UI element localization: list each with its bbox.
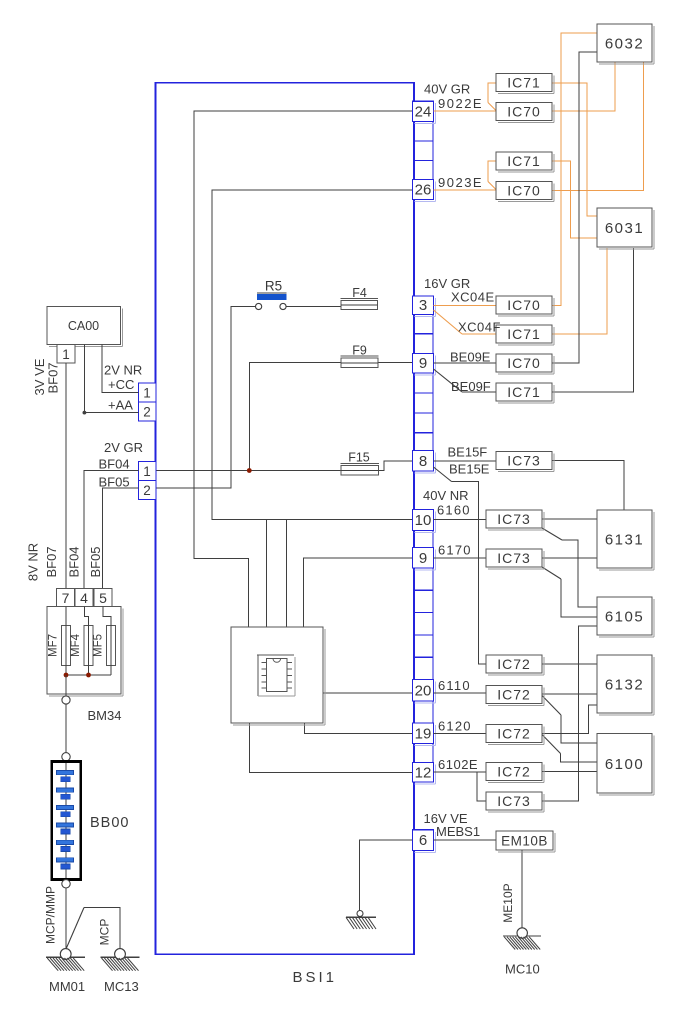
svg-text:6170: 6170 [438, 543, 472, 558]
svg-text:40V GR: 40V GR [424, 82, 470, 97]
svg-text:26: 26 [415, 182, 432, 199]
svg-text:9023E: 9023E [438, 175, 483, 190]
svg-text:MF7: MF7 [48, 634, 60, 657]
svg-text:IC70: IC70 [507, 355, 541, 371]
svg-text:XC04F: XC04F [458, 320, 501, 335]
svg-text:6160: 6160 [437, 503, 471, 518]
svg-text:XC04E: XC04E [451, 290, 495, 305]
svg-text:F9: F9 [352, 343, 367, 357]
svg-text:6100: 6100 [605, 756, 644, 773]
svg-text:BF07: BF07 [46, 362, 61, 393]
svg-text:BB00: BB00 [90, 815, 129, 831]
svg-text:MM01: MM01 [49, 979, 85, 994]
svg-text:MEBS1: MEBS1 [436, 824, 480, 839]
svg-text:MF4: MF4 [70, 633, 82, 657]
svg-text:19: 19 [415, 725, 432, 742]
svg-text:IC71: IC71 [507, 326, 541, 342]
svg-text:6131: 6131 [605, 532, 644, 549]
svg-text:BE09E: BE09E [450, 350, 491, 365]
svg-text:F15: F15 [348, 451, 370, 465]
svg-text:10: 10 [415, 512, 432, 529]
svg-text:24: 24 [415, 103, 432, 120]
svg-text:MCP/MMP: MCP/MMP [44, 886, 58, 944]
svg-text:EM10B: EM10B [501, 834, 548, 849]
svg-text:MCP: MCP [98, 919, 112, 946]
svg-text:BF04: BF04 [67, 546, 82, 577]
svg-text:5: 5 [99, 590, 107, 606]
svg-text:MC10: MC10 [505, 962, 540, 977]
svg-text:IC70: IC70 [507, 297, 541, 313]
svg-text:BM34: BM34 [88, 708, 122, 723]
svg-text:8: 8 [419, 453, 427, 470]
svg-text:6031: 6031 [605, 220, 644, 237]
svg-text:IC73: IC73 [497, 550, 531, 566]
svg-text:IC72: IC72 [497, 656, 531, 672]
svg-text:BF07: BF07 [44, 546, 59, 577]
svg-text:BF04: BF04 [99, 457, 130, 472]
svg-text:12: 12 [415, 764, 432, 781]
svg-text:IC70: IC70 [507, 182, 541, 198]
svg-text:2: 2 [143, 405, 151, 420]
svg-text:IC71: IC71 [507, 153, 541, 169]
svg-text:IC72: IC72 [497, 763, 531, 779]
svg-text:R5: R5 [265, 279, 282, 294]
svg-text:9: 9 [419, 355, 427, 372]
svg-text:+CC: +CC [108, 377, 134, 392]
svg-text:6132: 6132 [605, 677, 644, 694]
svg-text:+AA: +AA [108, 398, 133, 413]
svg-text:IC71: IC71 [507, 74, 541, 90]
svg-text:IC71: IC71 [507, 384, 541, 400]
svg-text:6120: 6120 [438, 719, 472, 734]
svg-text:BF05: BF05 [99, 475, 130, 490]
svg-text:MC13: MC13 [104, 979, 139, 994]
svg-text:40V NR: 40V NR [423, 488, 469, 503]
svg-text:MF5: MF5 [93, 634, 105, 657]
svg-text:3: 3 [419, 297, 427, 314]
svg-text:6102E: 6102E [438, 757, 478, 772]
svg-text:F4: F4 [352, 286, 367, 300]
svg-text:1: 1 [143, 464, 151, 479]
svg-text:1: 1 [143, 386, 151, 401]
svg-text:BE15F: BE15F [448, 445, 488, 460]
svg-text:BSI1: BSI1 [293, 969, 338, 986]
svg-text:6: 6 [419, 832, 427, 849]
svg-text:6105: 6105 [605, 609, 644, 626]
svg-text:7: 7 [62, 590, 70, 606]
svg-text:BF05: BF05 [88, 546, 103, 577]
svg-text:IC73: IC73 [507, 452, 541, 468]
svg-text:IC70: IC70 [507, 103, 541, 119]
svg-text:IC73: IC73 [497, 793, 531, 809]
svg-text:BE15E: BE15E [449, 462, 490, 477]
svg-text:2V GR: 2V GR [104, 440, 143, 455]
svg-text:2V NR: 2V NR [104, 363, 142, 378]
svg-text:ME10P: ME10P [501, 883, 515, 922]
svg-text:4: 4 [80, 590, 88, 606]
svg-text:2: 2 [143, 483, 151, 498]
svg-text:8V NR: 8V NR [26, 543, 41, 581]
svg-text:20: 20 [415, 682, 432, 699]
svg-text:9: 9 [419, 550, 427, 567]
svg-text:IC72: IC72 [497, 686, 531, 702]
svg-text:6110: 6110 [438, 678, 471, 693]
svg-text:BE09F: BE09F [451, 379, 491, 394]
svg-text:CA00: CA00 [68, 319, 99, 333]
svg-text:1: 1 [62, 347, 70, 362]
svg-text:IC73: IC73 [497, 511, 531, 527]
svg-text:IC72: IC72 [497, 725, 531, 741]
svg-text:6032: 6032 [605, 36, 644, 53]
svg-text:9022E: 9022E [438, 96, 483, 111]
